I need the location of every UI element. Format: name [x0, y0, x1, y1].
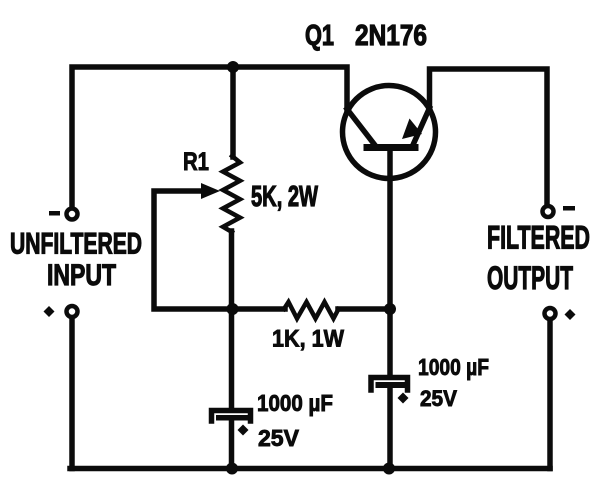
wire: pot bottom to mid junction	[229, 231, 235, 309]
junction dot: C1 column / bottom rail	[226, 463, 238, 475]
junction dot: base column / mid wire	[384, 303, 396, 315]
transistor Q1 base bar	[367, 144, 415, 151]
transistor Q1 circle	[343, 86, 436, 179]
plus diamond at unfiltered input	[44, 306, 55, 317]
svg-text:2N176: 2N176	[355, 20, 427, 52]
svg-text:INPUT: INPUT	[47, 259, 116, 292]
plus diamond at filtered output	[565, 309, 576, 320]
svg-text:Q1: Q1	[305, 20, 334, 52]
capacitor C1 bottom plate bar	[216, 415, 248, 421]
potentiometer wiper arrowhead	[201, 183, 220, 199]
capacitor C1 top plate bracket	[212, 411, 251, 422]
svg-text:5K, 2W: 5K, 2W	[251, 181, 318, 213]
wire: output positive column down to bottom rail	[547, 321, 553, 469]
minus sign at unfiltered input	[49, 211, 60, 216]
capacitor C2 top plate bracket	[371, 378, 408, 391]
transistor Q1 collector diagonal	[347, 109, 376, 147]
junction dot: C2 column / bottom rail	[383, 463, 395, 475]
svg-text:25V: 25V	[258, 425, 300, 451]
capacitor C2 bottom plate bar	[376, 382, 408, 388]
svg-text:R1: R1	[183, 148, 209, 176]
wire: input positive column down to bottom rail	[69, 319, 75, 469]
minus sign at filtered output	[563, 206, 575, 211]
terminal: filtered output negative	[543, 206, 554, 217]
wire: bottom rail	[70, 466, 550, 472]
svg-text:FILTERED: FILTERED	[487, 220, 590, 256]
transistor Q1 emitter arrowhead (PNP)	[402, 119, 422, 140]
resistor 1K,1W zigzag	[284, 302, 339, 319]
wire: Q1 base lead down to mid junction	[387, 150, 393, 309]
svg-text:1000 µF: 1000 µF	[418, 354, 489, 380]
wire: mid junction down to capacitor C2	[387, 309, 393, 376]
wire: capacitor C1 to bottom rail	[229, 418, 235, 469]
potentiometer R1 zigzag (5K, 2W)	[223, 156, 240, 232]
junction dot: pot bottom / mid wire	[227, 303, 239, 315]
wire: Q1 emitter lead up and top-right rail to output	[430, 69, 548, 205]
wire: pot top feed from top rail	[230, 67, 236, 157]
terminal: filtered output positive	[545, 308, 556, 319]
junction dot: top rail / pot	[227, 61, 239, 73]
terminal: unfiltered input negative	[67, 209, 78, 220]
transistor Q1 emitter diagonal	[413, 108, 430, 146]
svg-text:UNFILTERED: UNFILTERED	[10, 228, 142, 261]
svg-text:1000 µF: 1000 µF	[257, 390, 333, 416]
plus diamond at capacitor C2	[398, 393, 409, 404]
svg-text:1K, 1W: 1K, 1W	[272, 326, 344, 353]
svg-text:25V: 25V	[420, 386, 457, 411]
svg-text:OUTPUT: OUTPUT	[487, 260, 573, 296]
plus diamond at capacitor C1	[238, 425, 249, 436]
wire: wiper return loop (left of pot)	[154, 191, 232, 309]
wire: 1K resistor to base column junction	[338, 306, 390, 312]
terminal: unfiltered input positive	[67, 306, 78, 317]
wire: mid horizontal from pot-bottom junction to 1K resistor	[232, 306, 285, 312]
wire: capacitor C2 to bottom rail	[387, 386, 393, 469]
wire: mid junction down to capacitor C1	[229, 309, 235, 409]
wire: input negative column up, top rail, down to Q1 collector lead	[72, 67, 347, 207]
